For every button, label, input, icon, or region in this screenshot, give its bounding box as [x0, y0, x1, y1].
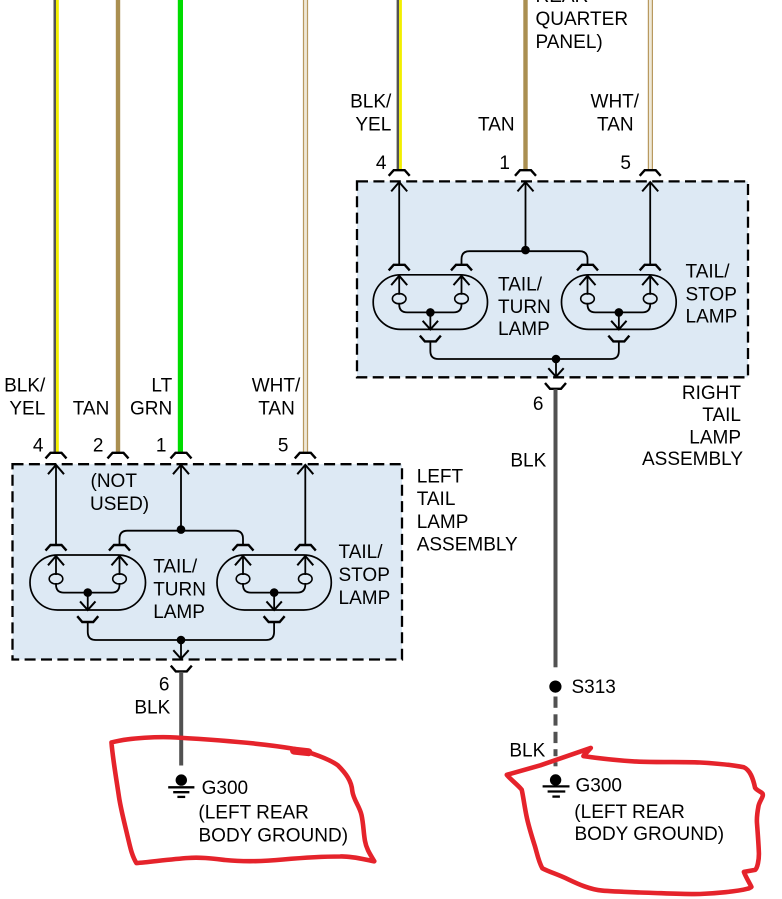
svg-text:PANEL): PANEL)	[536, 32, 603, 53]
svg-text:GRN: GRN	[130, 398, 172, 419]
lamp L2: terminal arrows	[235, 556, 251, 565]
svg-text:5: 5	[278, 436, 289, 457]
svg-text:6: 6	[533, 394, 544, 415]
lamp R2: bulb outline	[562, 275, 677, 330]
wire WHT/TAN (left, pin 5)	[303, 0, 308, 453]
ground G300 left symbol	[176, 774, 187, 785]
svg-text:(LEFT REAR: (LEFT REAR	[574, 802, 685, 823]
svg-text:G300: G300	[576, 775, 622, 796]
lamp R1: connector sockets above terminals	[389, 265, 410, 271]
wire TAN (left, pin 2)	[116, 0, 120, 453]
pin 1 arrow + wire, right box	[518, 182, 534, 191]
svg-text:TAIL: TAIL	[702, 405, 741, 426]
svg-text:LAMP: LAMP	[339, 588, 391, 609]
svg-text:BODY GROUND): BODY GROUND)	[575, 824, 725, 845]
lamp R2: connector sockets above terminals	[577, 265, 598, 271]
svg-text:6: 6	[159, 675, 170, 696]
svg-text:WHT/: WHT/	[591, 91, 640, 112]
lamp R2: ground-side arrow	[611, 321, 626, 330]
svg-text:TAIL/: TAIL/	[686, 262, 731, 283]
pin 1 branch wire, right box	[462, 251, 588, 265]
svg-text:TAIL/: TAIL/	[339, 542, 384, 563]
lamp R1: common junction dot	[426, 308, 435, 317]
svg-text:REAR: REAR	[536, 0, 589, 7]
left tail lamp assembly box	[13, 464, 403, 659]
svg-text:TAIL/: TAIL/	[498, 275, 543, 296]
pin 1 branch junction dot, right box	[521, 246, 530, 255]
pin 1 arrow + wire, left box	[173, 465, 189, 474]
common ground rail, left box	[88, 622, 274, 640]
lamp R1: bulb outline	[373, 275, 487, 330]
right tail lamp assembly box	[357, 181, 748, 377]
connector socket pin 5 left	[295, 453, 316, 459]
svg-text:USED): USED)	[90, 494, 149, 515]
svg-text:ASSEMBLY: ASSEMBLY	[642, 449, 743, 470]
svg-text:LT: LT	[151, 375, 172, 396]
lamp R1: terminal arrows	[391, 276, 407, 285]
lamp R2: common junction dot	[615, 308, 624, 317]
svg-text:TURN: TURN	[153, 579, 206, 600]
svg-text:LAMP: LAMP	[417, 512, 469, 533]
svg-text:(LEFT REAR: (LEFT REAR	[198, 802, 309, 823]
common ground rail, right box	[430, 342, 618, 360]
lamp R1: internal wire to common	[399, 303, 461, 313]
svg-text:TAN: TAN	[597, 114, 634, 135]
svg-text:LAMP: LAMP	[689, 427, 741, 448]
ground G300 right symbol	[550, 774, 561, 785]
svg-text:LAMP: LAMP	[498, 319, 550, 340]
lamp R1: ground-side arrow	[423, 321, 438, 330]
lamp L1: ground-side arrow	[80, 601, 95, 610]
rail junction dot, right box	[552, 355, 561, 364]
svg-text:YEL: YEL	[355, 114, 391, 135]
lamp L2: ground-side arrow	[266, 601, 281, 610]
lamp L1: socket below bulb	[77, 616, 98, 622]
pin 4 arrow + wire, left box	[48, 465, 64, 474]
rail junction dot, left box	[177, 636, 186, 645]
svg-text:TAIL: TAIL	[417, 489, 456, 510]
pin 5 arrow + wire, right box	[642, 182, 658, 191]
wire TAN (right, pin 1)	[523, 0, 527, 170]
svg-text:BODY GROUND): BODY GROUND)	[199, 825, 349, 846]
lamp L2: filament coils	[236, 574, 250, 584]
svg-text:BLK: BLK	[509, 740, 545, 761]
svg-text:RIGHT: RIGHT	[682, 383, 742, 404]
connector socket pin 6 left	[171, 666, 192, 672]
wire BLK left ground	[179, 672, 183, 766]
svg-text:S313: S313	[572, 677, 616, 698]
connector socket pin 5 right	[640, 170, 661, 176]
pin 4 arrow + wire, right box	[391, 182, 407, 191]
wire BLK right (dashed below splice)	[554, 697, 558, 708]
svg-text:YEL: YEL	[9, 398, 45, 419]
svg-text:TURN: TURN	[498, 297, 551, 318]
wire BLK/YEL (left, pin 4)	[54, 0, 57, 453]
svg-text:TAN: TAN	[73, 398, 110, 419]
lamp L2: bulb outline	[217, 555, 331, 610]
svg-text:5: 5	[620, 153, 631, 174]
lamp L2: connector sockets above terminals	[233, 545, 254, 551]
lamp L2: socket below bulb	[264, 616, 285, 622]
svg-text:STOP: STOP	[339, 565, 390, 586]
connector socket pin 1 left	[171, 453, 192, 459]
red annotation circle left	[112, 737, 375, 863]
pin 6 arrow, right box	[548, 368, 563, 377]
svg-text:LEFT: LEFT	[417, 466, 464, 487]
svg-text:BLK/: BLK/	[350, 91, 392, 112]
wire LT GRN (left, pin 1)	[178, 0, 183, 453]
connector socket pin 4 right	[389, 170, 410, 176]
lamp L1: internal wire to common	[56, 583, 120, 593]
svg-text:STOP: STOP	[686, 284, 737, 305]
svg-text:BLK/: BLK/	[4, 375, 46, 396]
connector socket pin 2 left	[108, 453, 129, 459]
lamp R2: socket below bulb	[608, 336, 629, 342]
lamp R1: filament coils	[392, 294, 406, 304]
svg-text:(NOT: (NOT	[91, 471, 138, 492]
pin 1 branch junction dot, left box	[177, 525, 186, 534]
pin 5 arrow + wire, left box	[297, 465, 313, 474]
svg-text:TAN: TAN	[478, 114, 515, 135]
svg-text:TAIL/: TAIL/	[153, 556, 198, 577]
svg-text:QUARTER: QUARTER	[536, 9, 629, 30]
lamp L1: bulb outline	[30, 555, 146, 610]
lamp R2: terminal arrows	[580, 276, 596, 285]
svg-text:TAN: TAN	[258, 398, 295, 419]
connector socket pin 6 right	[545, 383, 566, 389]
svg-text:WHT/: WHT/	[252, 375, 301, 396]
lamp L1: common junction dot	[83, 588, 92, 597]
svg-text:LAMP: LAMP	[153, 602, 205, 623]
svg-text:BLK: BLK	[134, 697, 170, 718]
svg-text:4: 4	[33, 436, 44, 457]
svg-text:ASSEMBLY: ASSEMBLY	[417, 535, 518, 556]
svg-text:1: 1	[156, 436, 167, 457]
pin 1 branch wire, left box	[120, 531, 244, 546]
red annotation circle right	[507, 748, 763, 894]
lamp R2: filament coils	[581, 294, 595, 304]
svg-text:G300: G300	[202, 778, 248, 799]
lamp L1: terminal arrows	[48, 556, 64, 565]
svg-text:2: 2	[93, 436, 104, 457]
wire BLK right (solid)	[554, 389, 558, 667]
wire WHT/TAN (right, pin 5)	[648, 0, 653, 170]
lamp R1: socket below bulb	[420, 336, 441, 342]
connector socket pin 4 left	[46, 453, 67, 459]
lamp L1: filament coils	[49, 574, 63, 584]
svg-text:1: 1	[499, 153, 510, 174]
red annotation thick mark	[294, 751, 309, 753]
connector socket pin 1 right	[515, 170, 536, 176]
svg-text:4: 4	[376, 153, 387, 174]
wire BLK/YEL (right, pin 4)	[397, 0, 400, 170]
lamp R2: internal wire to common	[588, 303, 651, 313]
svg-text:LAMP: LAMP	[686, 307, 738, 328]
splice S313 dot	[549, 681, 561, 693]
lamp L2: internal wire to common	[243, 583, 305, 593]
lamp L2: common junction dot	[270, 588, 279, 597]
pin 6 arrow, left box	[173, 650, 188, 659]
lamp L1: connector sockets above terminals	[46, 545, 67, 551]
svg-text:BLK: BLK	[510, 451, 546, 472]
